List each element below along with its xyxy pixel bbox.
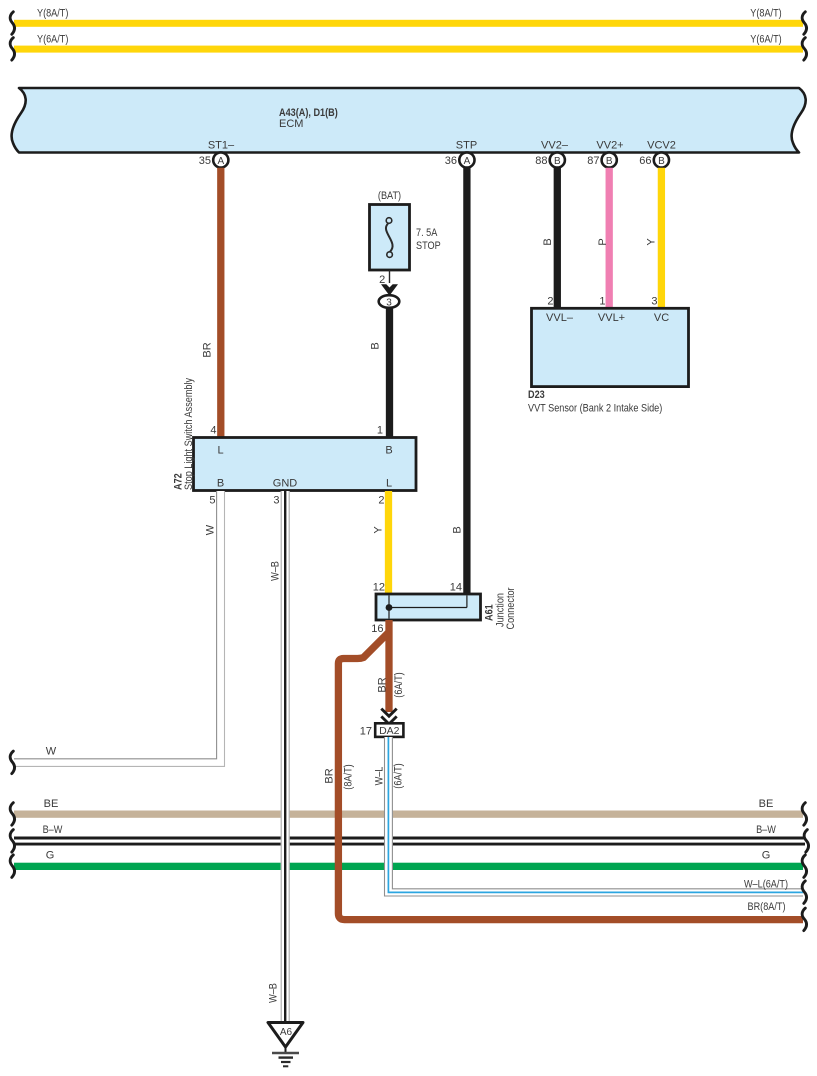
pin 87 (B) of ECM, VV2+ [587, 152, 617, 167]
svg-text:1: 1 [599, 296, 605, 308]
svg-text:88: 88 [535, 155, 547, 167]
break symbol, right end of Y(8A/T) [802, 12, 806, 35]
svg-text:L: L [386, 478, 392, 490]
break symbol, right end of G [802, 855, 806, 878]
pin 88 (B) of ECM, VV2- [535, 152, 565, 167]
wire P (VV2+) from ECM pin 87 to D23 pin 1 [597, 168, 609, 308]
break symbol, right end of Y(6A/T) [802, 38, 806, 61]
svg-text:BE: BE [759, 798, 774, 810]
pin 66 (B) of ECM, VCV2 [639, 152, 669, 167]
break symbol, right end of BR(8A/T) [802, 908, 806, 931]
svg-text:W: W [46, 746, 57, 758]
svg-text:35: 35 [199, 155, 211, 167]
svg-text:4: 4 [210, 425, 216, 437]
svg-text:B–W: B–W [756, 824, 776, 836]
svg-text:A: A [464, 156, 471, 167]
horizontal bus wire B-W (black with white stripe) [14, 824, 805, 844]
fuse 7.5A STOP (BAT) [370, 190, 441, 270]
wire W from A72 pin 5 down and left to edge [14, 491, 225, 767]
wire BR (6A/T) from A61 pin 16 down to DA2 [376, 620, 405, 712]
svg-text:16: 16 [371, 623, 383, 635]
svg-text:W–B: W–B [267, 983, 279, 1003]
svg-text:A: A [217, 156, 224, 167]
svg-text:D23: D23 [528, 389, 545, 401]
svg-text:Y: Y [372, 526, 384, 534]
connector D23 VVT Sensor (Bank 2 Intake Side) [528, 308, 689, 414]
svg-text:BR(8A/T): BR(8A/T) [748, 901, 786, 913]
junction connector A61 [376, 587, 517, 629]
connector DA2 (pin 17) [360, 723, 404, 737]
wire W-L (6A/T) from DA2 down then right to edge [373, 737, 803, 897]
svg-text:36: 36 [445, 155, 457, 167]
break symbol, right end of B-W [804, 830, 808, 853]
svg-text:ECM: ECM [279, 118, 303, 130]
svg-text:L: L [217, 445, 223, 457]
svg-text:G: G [762, 850, 771, 862]
wire Y from A72 pin 2 to A61 pin 12 [372, 491, 388, 594]
svg-text:(6A/T): (6A/T) [393, 672, 405, 697]
svg-text:B–W: B–W [43, 824, 63, 836]
svg-text:(8A/T): (8A/T) [342, 764, 354, 789]
wire from fuse pin 2 to junction node 3, with arrowhead [379, 270, 398, 296]
svg-text:BE: BE [44, 798, 59, 810]
svg-text:BR: BR [201, 342, 213, 357]
svg-text:Y: Y [645, 238, 657, 246]
svg-text:1: 1 [377, 425, 383, 437]
wire B from ECM pin 36 (STP) to A61 pin 14 [451, 168, 466, 594]
junction node 3 (ellipse) [379, 295, 400, 308]
svg-text:VVL–: VVL– [546, 312, 574, 324]
svg-text:B: B [369, 342, 381, 349]
svg-text:2: 2 [547, 296, 553, 308]
svg-text:3: 3 [273, 495, 279, 507]
svg-text:B: B [217, 478, 224, 490]
svg-text:ST1–: ST1– [208, 140, 235, 152]
svg-text:Y(8A/T): Y(8A/T) [37, 8, 68, 20]
svg-text:Y(6A/T): Y(6A/T) [37, 34, 68, 46]
svg-text:A6: A6 [280, 1027, 293, 1038]
svg-text:B: B [606, 156, 613, 167]
connector A72 Stop Light Switch Assembly [173, 377, 417, 490]
svg-text:2: 2 [378, 495, 384, 507]
svg-text:BR: BR [323, 768, 335, 783]
pin 36 (A) of ECM, STP [445, 152, 475, 167]
svg-text:BR: BR [376, 677, 388, 692]
svg-text:W: W [204, 524, 216, 535]
svg-text:STOP: STOP [416, 240, 441, 252]
horizontal bus wire G [14, 850, 803, 871]
svg-text:VCV2: VCV2 [647, 140, 676, 152]
wire BR from ECM pin 35 to A72 pin 4 [201, 168, 220, 438]
svg-text:(BAT): (BAT) [378, 190, 401, 202]
break symbol, right end of BE [802, 803, 806, 826]
svg-text:(6A/T): (6A/T) [392, 763, 404, 788]
double chevron arrow into DA2 [381, 709, 396, 724]
wire Y(6A/T) top bus [14, 34, 803, 53]
break symbol, left end of W [10, 751, 14, 774]
svg-text:17: 17 [360, 726, 372, 738]
break symbol, left end of BE [10, 803, 14, 826]
svg-text:66: 66 [639, 155, 651, 167]
svg-text:DA2: DA2 [379, 725, 400, 737]
svg-text:12: 12 [373, 582, 385, 594]
svg-text:VVT Sensor (Bank 2 Intake Side: VVT Sensor (Bank 2 Intake Side) [528, 403, 662, 415]
break symbol, left end of Y(6A/T) [10, 38, 14, 61]
svg-text:W–B: W–B [269, 561, 281, 581]
svg-text:W–L(6A/T): W–L(6A/T) [744, 879, 788, 891]
svg-text:Stop Light Switch Assembly: Stop Light Switch Assembly [183, 377, 195, 490]
svg-text:14: 14 [450, 582, 462, 594]
svg-text:VC: VC [654, 312, 669, 324]
svg-text:VVL+: VVL+ [598, 312, 625, 324]
pin 35 (A) of ECM, ST1- [199, 152, 229, 167]
horizontal bus wire BE [14, 798, 803, 818]
ground A6 [268, 1023, 303, 1067]
wire B (VV2-) from ECM pin 88 to D23 pin 2 [542, 168, 557, 308]
svg-text:B: B [451, 526, 463, 533]
wire W-B from A72 pin 3 (GND) down to ground A6 [267, 491, 289, 1023]
svg-text:5: 5 [209, 495, 215, 507]
svg-text:Y(6A/T): Y(6A/T) [750, 34, 781, 46]
svg-text:B: B [658, 156, 665, 167]
svg-text:7. 5A: 7. 5A [416, 227, 438, 239]
wire B from node 3 to A72 pin 1 [369, 308, 389, 438]
svg-text:B: B [554, 156, 561, 167]
svg-text:P: P [597, 238, 609, 245]
break symbol, left end of G [10, 855, 14, 878]
svg-text:87: 87 [587, 155, 599, 167]
svg-text:3: 3 [386, 297, 392, 308]
wire Y(8A/T) top bus [14, 8, 803, 27]
ECM box A43(A), D1(B) [12, 88, 806, 153]
break symbol, left end of Y(8A/T) [10, 12, 14, 35]
svg-text:GND: GND [273, 478, 298, 490]
wire BR (8A/T) branch: diagonal, left, down, then right to edge [323, 632, 803, 920]
svg-text:B: B [542, 238, 554, 245]
svg-text:3: 3 [651, 296, 657, 308]
break symbol, right end of W-L(6A/T) [802, 881, 806, 904]
svg-text:Connector: Connector [505, 587, 517, 629]
svg-text:G: G [46, 850, 55, 862]
svg-text:W–L: W–L [373, 767, 385, 786]
wire Y (VCV2) from ECM pin 66 to D23 pin 3 [645, 168, 661, 308]
svg-text:STP: STP [456, 140, 477, 152]
svg-text:VV2–: VV2– [541, 140, 569, 152]
svg-text:B: B [385, 445, 392, 457]
svg-text:VV2+: VV2+ [596, 140, 623, 152]
svg-text:Y(8A/T): Y(8A/T) [750, 8, 781, 20]
break symbol, left end of B-W [10, 830, 14, 853]
